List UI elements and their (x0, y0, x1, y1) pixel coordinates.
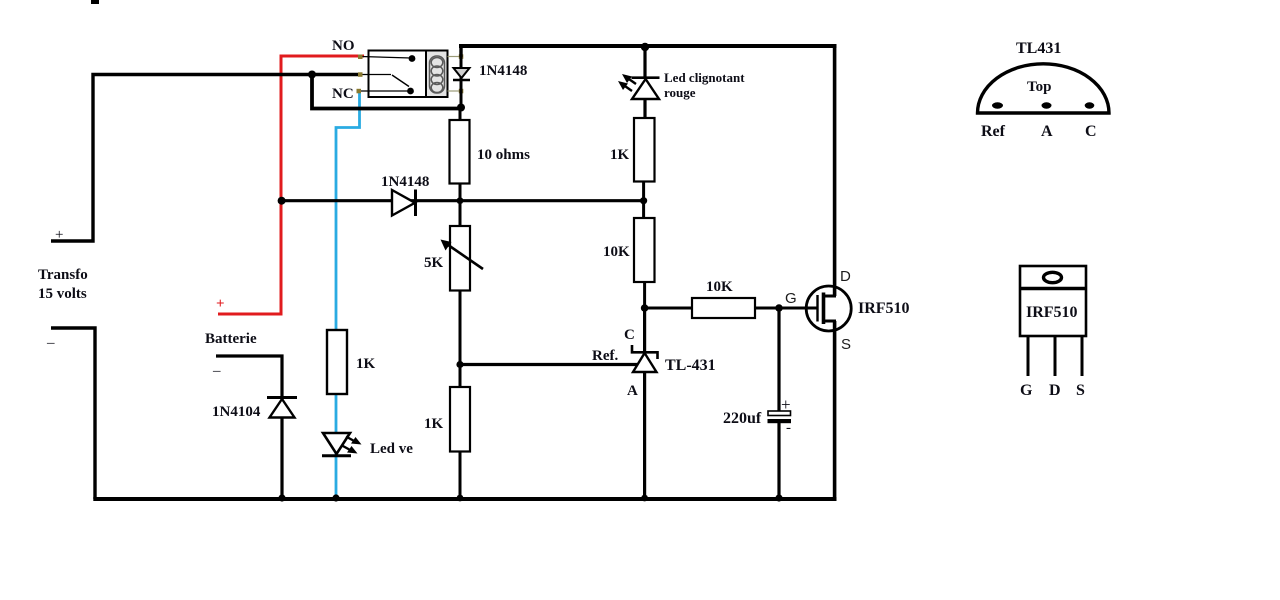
wire: top rail (459, 44, 837, 48)
wire: com branch down to relay-out node (312, 75, 461, 109)
svg-text:5K: 5K (424, 255, 444, 271)
svg-text:+: + (55, 227, 63, 243)
resistor 1K (red led) (634, 118, 655, 182)
svg-text:C: C (1085, 123, 1097, 140)
svg-text:15 volts: 15 volts (38, 286, 87, 302)
svg-text:A: A (1041, 123, 1053, 140)
wire: mid horizontal (282, 199, 644, 202)
wire: battery + (red) (218, 56, 364, 314)
wire: gate horizontal right (755, 307, 817, 310)
resistor 10K vertical (634, 218, 655, 282)
TL-431 (643, 308, 646, 352)
wire: 10 ohms to mid node (459, 184, 462, 202)
junction: gate node (775, 304, 783, 312)
svg-text:A: A (627, 383, 638, 399)
LED rouge arrows (626, 77, 636, 84)
LED verte (323, 433, 350, 454)
svg-text:Top: Top (1027, 79, 1051, 95)
wire: rail to coil top (459, 46, 462, 57)
diode 1N4148 (mid) (392, 190, 415, 216)
relay terminals (358, 55, 363, 60)
svg-text:1N4148: 1N4148 (381, 174, 429, 190)
svg-text:rouge: rouge (664, 85, 696, 100)
package legs (1027, 336, 1030, 376)
resistor 10 ohms (450, 120, 470, 184)
svg-text:–: – (46, 335, 55, 351)
junction: 1K on rail (457, 495, 464, 502)
relay NC contact (359, 90, 408, 92)
wire: battery − lead (216, 356, 282, 499)
LED clignotant rouge (643, 46, 646, 78)
relay coil leads (448, 56, 462, 58)
svg-text:NC: NC (332, 86, 354, 102)
svg-text:D: D (840, 268, 851, 285)
relay NO contact (361, 57, 411, 59)
svg-text:Batterie: Batterie (205, 331, 257, 347)
resistor 1K (lower) (459, 364, 462, 388)
svg-text:+: + (216, 296, 225, 312)
svg-text:Led ve: Led ve (370, 441, 413, 457)
svg-text:S: S (1076, 382, 1085, 399)
capacitor 220uf (777, 308, 780, 412)
junction: cap on rail (775, 494, 782, 501)
svg-text:IRF510: IRF510 (858, 300, 910, 317)
wire: 10K to gate node (643, 282, 646, 308)
svg-text:Transfo: Transfo (38, 267, 88, 283)
wire: 1K to rail (459, 452, 462, 500)
svg-text:1N4148: 1N4148 (479, 63, 527, 79)
package pins (992, 102, 1003, 108)
svg-text:1N4104: 1N4104 (212, 404, 261, 420)
package dome (978, 64, 1110, 113)
svg-text:C: C (624, 327, 635, 343)
relay coil (430, 56, 445, 93)
wire: ref horizontal (460, 363, 638, 366)
relay coil compartment (426, 51, 448, 98)
svg-text:–: – (212, 363, 221, 379)
wire: gate horizontal left (645, 307, 693, 310)
relay COM armature (361, 74, 391, 76)
svg-text:S: S (841, 336, 851, 353)
junction: blue wire on rail (332, 494, 339, 501)
junction: TL431 C node (641, 304, 649, 312)
wire: NC blue (336, 93, 360, 499)
MOSFET IRF510 (833, 46, 837, 296)
wire: mid to 10K (642, 201, 645, 219)
svg-text:1K: 1K (424, 416, 444, 432)
wire: node to 10 ohms (459, 107, 462, 121)
wire: transfo − lead (51, 328, 95, 499)
diode 1N4148 (relay) (460, 56, 463, 106)
LED verte arrows (346, 437, 356, 443)
wire: TL431 anode to rail (643, 372, 646, 499)
svg-text:G: G (1020, 382, 1033, 399)
svg-text:+: + (781, 395, 791, 414)
svg-text:10 ohms: 10 ohms (477, 147, 530, 163)
package hole (1044, 272, 1062, 282)
svg-text:G: G (785, 290, 797, 307)
junction: on red wire (278, 197, 286, 205)
junction: anode on rail (641, 495, 648, 502)
wire: transfo + lead to relay COM (51, 75, 360, 242)
svg-text:NO: NO (332, 38, 355, 54)
potentiometer 5K (459, 201, 462, 227)
svg-text:IRF510: IRF510 (1026, 304, 1078, 321)
package IRF510 (1020, 266, 1086, 336)
svg-text:1K: 1K (356, 356, 376, 372)
diode 1N4104 (270, 399, 295, 418)
resistor 1K (green led) (327, 330, 347, 394)
svg-text:D: D (1049, 382, 1061, 399)
stray mark top-left (91, 0, 99, 4)
relay box (369, 51, 448, 98)
wire: ground bottom rail (93, 497, 836, 501)
svg-text:220uf: 220uf (723, 410, 762, 427)
wire: 1K to mid (642, 182, 645, 202)
svg-text:Ref: Ref (981, 123, 1006, 140)
svg-text:TL431: TL431 (1016, 40, 1061, 57)
svg-text:-: - (786, 420, 791, 436)
svg-text:TL-431: TL-431 (665, 357, 716, 374)
svg-text:10K: 10K (706, 279, 733, 295)
junction: ref node (456, 361, 463, 368)
svg-text:1K: 1K (610, 147, 630, 163)
junction: com branch (308, 71, 316, 79)
svg-text:Ref.: Ref. (592, 348, 618, 364)
junction: mid node (457, 197, 464, 204)
junction: relay-out node (457, 104, 465, 112)
junction: top rail LED branch (641, 43, 649, 51)
wire: 5K to ref node (459, 291, 462, 366)
svg-text:10K: 10K (603, 244, 630, 260)
junction: battery − on rail (278, 494, 285, 501)
resistor 10K gate (692, 298, 755, 318)
svg-text:Led clignotant: Led clignotant (664, 70, 745, 85)
junction: 1K/10K node (640, 197, 647, 204)
